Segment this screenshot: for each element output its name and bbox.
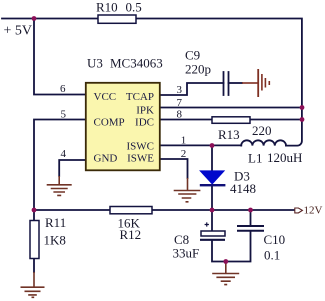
svg-text:220p: 220p [185,62,211,77]
svg-text:ISWE: ISWE [127,153,154,165]
svg-text:TCAP: TCAP [126,91,154,103]
svg-text:L1: L1 [248,151,262,166]
svg-text:IPK: IPK [136,105,154,117]
svg-text:120uH: 120uH [267,150,302,165]
svg-text:GND: GND [94,153,118,165]
svg-text:8: 8 [177,109,183,121]
svg-text:ISWC: ISWC [127,141,155,153]
svg-text:VCC: VCC [94,91,117,103]
svg-text:33uF: 33uF [173,246,200,261]
svg-text:0.1: 0.1 [264,248,280,263]
svg-text:+ 5V: + 5V [4,24,33,39]
svg-text:IDC: IDC [135,117,154,129]
svg-text:R12: R12 [120,227,142,242]
svg-text:4: 4 [61,148,67,160]
svg-text:MC34063: MC34063 [110,56,163,71]
svg-text:220: 220 [252,123,272,138]
svg-text:0.5: 0.5 [126,0,142,15]
svg-text:C10: C10 [264,232,286,247]
svg-text:COMP: COMP [94,117,125,129]
svg-text:6: 6 [60,83,66,95]
svg-text:R13: R13 [218,127,240,142]
svg-text:R11: R11 [45,215,66,230]
svg-text:12V: 12V [304,205,323,217]
svg-text:4148: 4148 [230,181,256,196]
svg-text:1K8: 1K8 [44,233,66,248]
svg-text:C9: C9 [185,48,200,63]
svg-text:5: 5 [61,108,67,120]
svg-text:1: 1 [181,135,187,147]
svg-text:7: 7 [177,97,183,109]
svg-text:2: 2 [181,148,187,160]
svg-text:R10: R10 [96,0,118,15]
svg-text:U3: U3 [87,56,103,71]
svg-text:3: 3 [177,84,183,96]
